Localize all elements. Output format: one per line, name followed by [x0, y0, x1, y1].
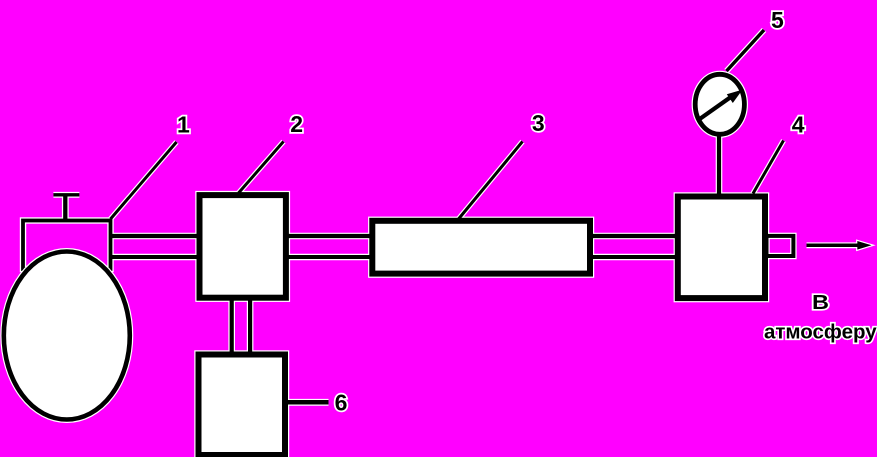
gauge stem	[717, 134, 721, 197]
svg-text:2: 2	[290, 111, 303, 137]
svg-text:1: 1	[177, 112, 190, 138]
svg-text:атмосферу: атмосферу	[764, 321, 877, 344]
svg-text:4: 4	[792, 112, 805, 138]
pipe lower wall: valve to box 2	[110, 255, 198, 259]
outlet nozzle stub	[767, 236, 794, 256]
valve body on cylinder neck	[23, 221, 111, 270]
svg-text:3: 3	[532, 110, 545, 136]
leader line 2	[239, 142, 284, 194]
text line: В	[812, 291, 829, 314]
gauge needle	[698, 97, 732, 121]
pipe lower wall: box 2 to box 3	[286, 255, 372, 259]
leader line 6	[288, 400, 329, 405]
label 6	[335, 390, 348, 416]
label 4	[792, 112, 805, 138]
vertical pipe left wall: box 2 to box 6	[230, 298, 234, 353]
box 6 (lower unit)	[199, 355, 286, 456]
box 4 (outlet unit)	[678, 197, 765, 299]
pipe upper wall: box 3 to box 4	[590, 234, 678, 238]
svg-text:В: В	[812, 291, 829, 314]
vertical pipe right wall: box 2 to box 6	[248, 298, 252, 353]
label 1	[177, 112, 190, 138]
gas cylinder balloon	[4, 252, 130, 420]
valve handle bar	[53, 193, 79, 196]
box 2 (regulator unit)	[200, 195, 286, 298]
pipe lower wall: box 3 to box 4	[590, 255, 678, 259]
leader line 4	[753, 141, 784, 194]
valve stem	[63, 194, 67, 220]
label 3	[532, 110, 545, 136]
leader line 5	[727, 30, 765, 71]
pipe upper wall: box 2 to box 3	[286, 234, 372, 238]
box 3 (long tube unit)	[372, 221, 590, 274]
pipe upper wall: valve to box 2	[110, 234, 198, 238]
label 2	[290, 111, 303, 137]
gauge needle arrowhead	[727, 90, 743, 103]
pressure gauge body	[695, 74, 744, 134]
label 5	[771, 7, 784, 33]
outlet arrow shaft	[807, 244, 859, 248]
svg-text:6: 6	[335, 390, 348, 416]
leader line 1	[111, 142, 177, 219]
leader line 3	[459, 142, 523, 220]
outlet arrow head	[857, 241, 871, 250]
text line: атмосферу	[764, 321, 877, 344]
svg-text:5: 5	[771, 7, 784, 33]
